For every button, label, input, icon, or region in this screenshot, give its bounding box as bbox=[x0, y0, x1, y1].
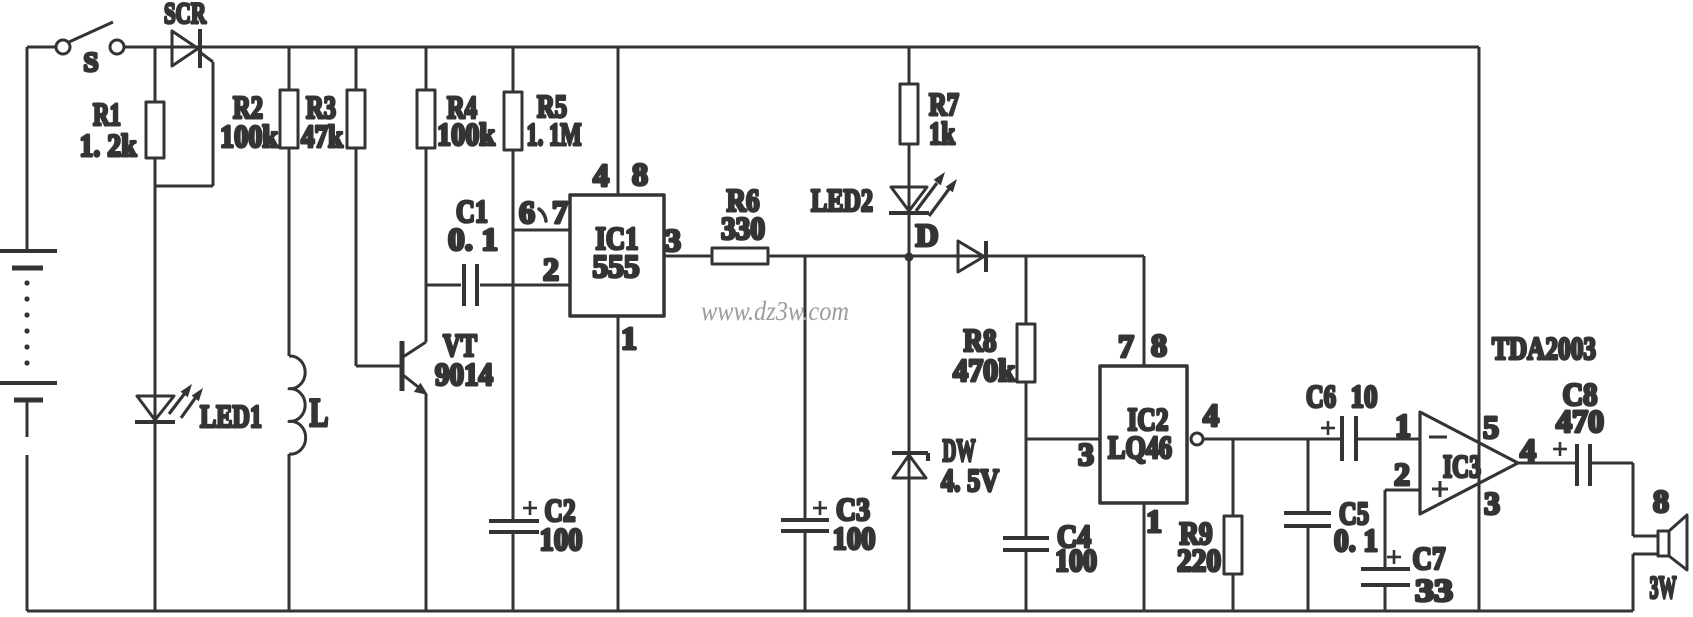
wire L to bottom bus bbox=[288, 454, 291, 611]
svg-text:3: 3 bbox=[1078, 436, 1094, 472]
resistor R2 bbox=[280, 47, 298, 356]
svg-text:0. 1: 0. 1 bbox=[1334, 522, 1378, 558]
wire C4 to bottom bus bbox=[1025, 550, 1028, 611]
wire emitter to bottom bus bbox=[425, 394, 428, 611]
resistor R5 bbox=[504, 47, 522, 521]
wire SCR gate bbox=[155, 53, 213, 186]
resistor R9 bbox=[1224, 439, 1242, 611]
transistor VT 9014 bbox=[402, 341, 428, 395]
svg-text:100k: 100k bbox=[437, 116, 495, 152]
wire pin 3 bbox=[1026, 438, 1100, 441]
wire pin 3 bbox=[664, 255, 712, 258]
svg-text:4: 4 bbox=[1520, 432, 1536, 468]
resistor R6 bbox=[712, 248, 768, 264]
svg-text:1. 2k: 1. 2k bbox=[80, 127, 137, 163]
svg-text:LED1: LED1 bbox=[200, 398, 262, 434]
svg-text:470k: 470k bbox=[953, 352, 1015, 388]
capacitor C5 bbox=[1284, 439, 1331, 526]
svg-text:0. 1: 0. 1 bbox=[448, 221, 498, 257]
wire C2 to bottom bus bbox=[512, 532, 515, 611]
capacitor C3 bbox=[781, 256, 829, 531]
capacitor C4 bbox=[1003, 439, 1049, 550]
svg-text:LQ46: LQ46 bbox=[1108, 429, 1172, 465]
wire C6 to pin 1 bbox=[1356, 438, 1421, 441]
svg-text:2: 2 bbox=[543, 251, 559, 287]
svg-text:3: 3 bbox=[665, 222, 681, 258]
wire IC2 pins 7,8 bbox=[1143, 256, 1146, 366]
svg-text:IC3: IC3 bbox=[1443, 448, 1481, 484]
wire R1 to LED1 bbox=[154, 186, 157, 611]
wire switch to SCR bbox=[124, 46, 1479, 49]
svg-text:33: 33 bbox=[1415, 572, 1453, 608]
capacitor C6 bbox=[1321, 416, 1356, 461]
svg-text:8: 8 bbox=[1653, 483, 1669, 519]
resistor R1 bbox=[146, 47, 164, 186]
svg-text:4: 4 bbox=[593, 157, 609, 193]
label R6 value bbox=[721, 182, 765, 246]
svg-text:1. 1M: 1. 1M bbox=[527, 116, 582, 152]
LED LED1 bbox=[135, 384, 203, 422]
op-amp IC1 555 bbox=[570, 195, 664, 316]
resistor R8 bbox=[1017, 256, 1035, 439]
svg-text:470: 470 bbox=[1556, 403, 1604, 439]
svg-text:5: 5 bbox=[1483, 409, 1499, 445]
label IC1 value bbox=[593, 220, 640, 284]
svg-text:1: 1 bbox=[621, 320, 637, 356]
zener diode DW bbox=[892, 453, 928, 478]
wire battery minus to bottom bus bbox=[26, 400, 29, 437]
wire pin 4 output bbox=[1516, 462, 1577, 465]
wire speaker return bbox=[1633, 554, 1658, 611]
op-amp IC2 LQ46 bbox=[1100, 366, 1187, 503]
wire pins 6,7 bbox=[513, 229, 570, 232]
battery B bbox=[0, 47, 57, 400]
svg-text:L: L bbox=[310, 390, 329, 435]
svg-text:4: 4 bbox=[1203, 397, 1219, 433]
svg-text:100: 100 bbox=[540, 521, 583, 557]
svg-text:4. 5V: 4. 5V bbox=[941, 462, 999, 498]
speaker bbox=[1658, 515, 1687, 570]
svg-text:2: 2 bbox=[1394, 456, 1410, 492]
svg-text:555: 555 bbox=[593, 248, 640, 284]
switch S bbox=[56, 22, 124, 54]
wire C3 to bottom bus bbox=[804, 531, 807, 611]
svg-text:100k: 100k bbox=[220, 118, 278, 154]
wire pin 4 to C6 bbox=[1203, 438, 1342, 441]
svg-text:1: 1 bbox=[1395, 407, 1411, 443]
svg-text:330: 330 bbox=[721, 210, 765, 246]
svg-text:9014: 9014 bbox=[435, 356, 493, 392]
svg-text:SCR: SCR bbox=[164, 0, 206, 30]
op-amp IC3 bbox=[1420, 412, 1518, 514]
label IC2 value bbox=[1108, 401, 1172, 465]
svg-text:100: 100 bbox=[1055, 542, 1097, 578]
svg-text:6: 6 bbox=[519, 194, 535, 230]
svg-text:47k: 47k bbox=[301, 118, 343, 154]
wire bottom bus bbox=[27, 610, 1633, 613]
wire C8 to speaker bbox=[1590, 463, 1658, 536]
node D bbox=[905, 253, 914, 262]
svg-text:7: 7 bbox=[1118, 328, 1134, 364]
svg-text:8: 8 bbox=[632, 156, 648, 192]
svg-text:LED2: LED2 bbox=[811, 182, 873, 218]
svg-text:8: 8 bbox=[1151, 327, 1167, 363]
wire pin 2 to C7 bbox=[1385, 490, 1421, 569]
wire pin 5 to top bus bbox=[1478, 47, 1481, 611]
wire pin 1 to bottom bus bbox=[617, 316, 620, 611]
capacitor C7 bbox=[1361, 550, 1410, 585]
svg-text:220: 220 bbox=[1177, 542, 1221, 578]
capacitor C2 bbox=[489, 501, 539, 532]
pin label 6、7 bbox=[519, 194, 568, 230]
svg-text:3: 3 bbox=[1484, 485, 1500, 521]
wire R3 to base bbox=[356, 365, 400, 368]
svg-text:10: 10 bbox=[1351, 378, 1378, 414]
thyristor SCR bbox=[172, 29, 200, 68]
resistor R7 bbox=[900, 47, 918, 611]
resistor R4 bbox=[417, 47, 435, 342]
wire pins 4,8 to top bus bbox=[617, 47, 620, 195]
capacitor C1 bbox=[426, 264, 570, 306]
diode D bbox=[958, 241, 986, 272]
wire pin 1 to bottom bus bbox=[1143, 503, 1146, 611]
svg-text:TDA2003: TDA2003 bbox=[1492, 330, 1596, 366]
inductor L bbox=[289, 356, 306, 454]
pin 4 terminal bbox=[1191, 433, 1203, 445]
svg-text:100: 100 bbox=[833, 520, 876, 556]
svg-text:7: 7 bbox=[552, 194, 568, 230]
svg-text:C6: C6 bbox=[1306, 378, 1336, 414]
svg-text:D: D bbox=[915, 217, 938, 253]
svg-text:C7: C7 bbox=[1413, 540, 1446, 576]
svg-text:1: 1 bbox=[1146, 503, 1162, 539]
LED LED2 bbox=[889, 172, 957, 216]
wire R6 to diode bbox=[768, 255, 1144, 258]
svg-text:www.dz3w.com: www.dz3w.com bbox=[701, 296, 849, 326]
wire C5 to bottom bus bbox=[1307, 526, 1310, 611]
svg-text:S: S bbox=[83, 47, 98, 77]
capacitor C8 bbox=[1553, 442, 1590, 486]
svg-text:3W: 3W bbox=[1650, 569, 1677, 605]
wire C7 to bottom bus bbox=[1384, 585, 1387, 611]
svg-text:1k: 1k bbox=[929, 115, 955, 151]
wire top bus left stub bbox=[27, 46, 56, 49]
resistor R3 bbox=[347, 47, 365, 366]
